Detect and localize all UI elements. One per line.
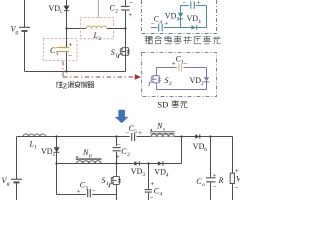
svg-text:S: S	[165, 76, 169, 85]
svg-text:3: 3	[142, 172, 145, 178]
svg-text:2: 2	[201, 81, 204, 87]
svg-text:VD: VD	[154, 167, 166, 176]
svg-text:VD: VD	[190, 76, 202, 85]
svg-text:4: 4	[160, 191, 163, 197]
svg-text:+: +	[150, 180, 154, 188]
svg-text:g: g	[7, 181, 10, 187]
svg-text:+: +	[213, 171, 217, 179]
svg-text:−: −	[117, 141, 121, 149]
svg-text:−: −	[68, 52, 72, 60]
svg-text:2: 2	[98, 36, 101, 42]
svg-text:VD: VD	[41, 147, 53, 156]
svg-text:4: 4	[198, 19, 201, 25]
svg-text:+: +	[197, 0, 201, 7]
svg-text:S: S	[102, 176, 106, 185]
svg-text:+: +	[77, 188, 81, 196]
svg-text:N: N	[156, 121, 163, 130]
svg-text:−: −	[235, 184, 239, 192]
svg-text:N: N	[82, 148, 89, 157]
svg-text:p: p	[88, 153, 92, 159]
svg-text:1: 1	[86, 186, 89, 192]
svg-text:VD: VD	[193, 142, 205, 151]
svg-text:−: −	[150, 193, 154, 200]
svg-text:+: +	[138, 129, 142, 137]
svg-text:Z: Z	[63, 81, 68, 90]
svg-text:+: +	[128, 11, 132, 19]
svg-text:−: −	[151, 19, 155, 27]
svg-text:−: −	[184, 60, 188, 68]
svg-text:1: 1	[106, 181, 109, 187]
svg-text:1: 1	[115, 53, 118, 59]
svg-text:1: 1	[60, 9, 63, 15]
svg-text:2: 2	[169, 81, 172, 87]
svg-text:−: −	[129, 0, 133, 7]
svg-text:−: −	[213, 183, 217, 191]
svg-text:s: s	[163, 126, 165, 132]
svg-text:−: −	[92, 187, 96, 195]
svg-text:+: +	[116, 153, 120, 161]
svg-text:+: +	[172, 60, 176, 68]
svg-text:2: 2	[127, 152, 130, 158]
svg-text:SD: SD	[157, 99, 168, 109]
svg-text:V: V	[236, 174, 240, 183]
svg-text:+: +	[164, 19, 168, 27]
svg-text:6: 6	[204, 147, 207, 153]
svg-text:g: g	[16, 29, 19, 35]
svg-text:4: 4	[166, 172, 169, 178]
svg-text:1: 1	[53, 152, 56, 158]
svg-text:1: 1	[34, 144, 37, 150]
svg-text:VD: VD	[49, 4, 61, 13]
svg-text:o: o	[202, 182, 205, 188]
svg-text:VD: VD	[187, 14, 199, 23]
svg-text:3: 3	[176, 17, 179, 23]
svg-text:5: 5	[134, 129, 137, 135]
svg-text:S: S	[111, 48, 115, 57]
svg-text:2: 2	[115, 9, 118, 15]
svg-text:R: R	[218, 176, 224, 185]
svg-text:VD: VD	[131, 167, 143, 176]
svg-text:1: 1	[56, 51, 59, 57]
svg-text:VD: VD	[165, 12, 177, 21]
svg-text:−: −	[183, 0, 187, 7]
svg-text:+: +	[68, 41, 72, 49]
svg-text:−: −	[126, 129, 130, 137]
svg-text:4: 4	[159, 20, 162, 26]
